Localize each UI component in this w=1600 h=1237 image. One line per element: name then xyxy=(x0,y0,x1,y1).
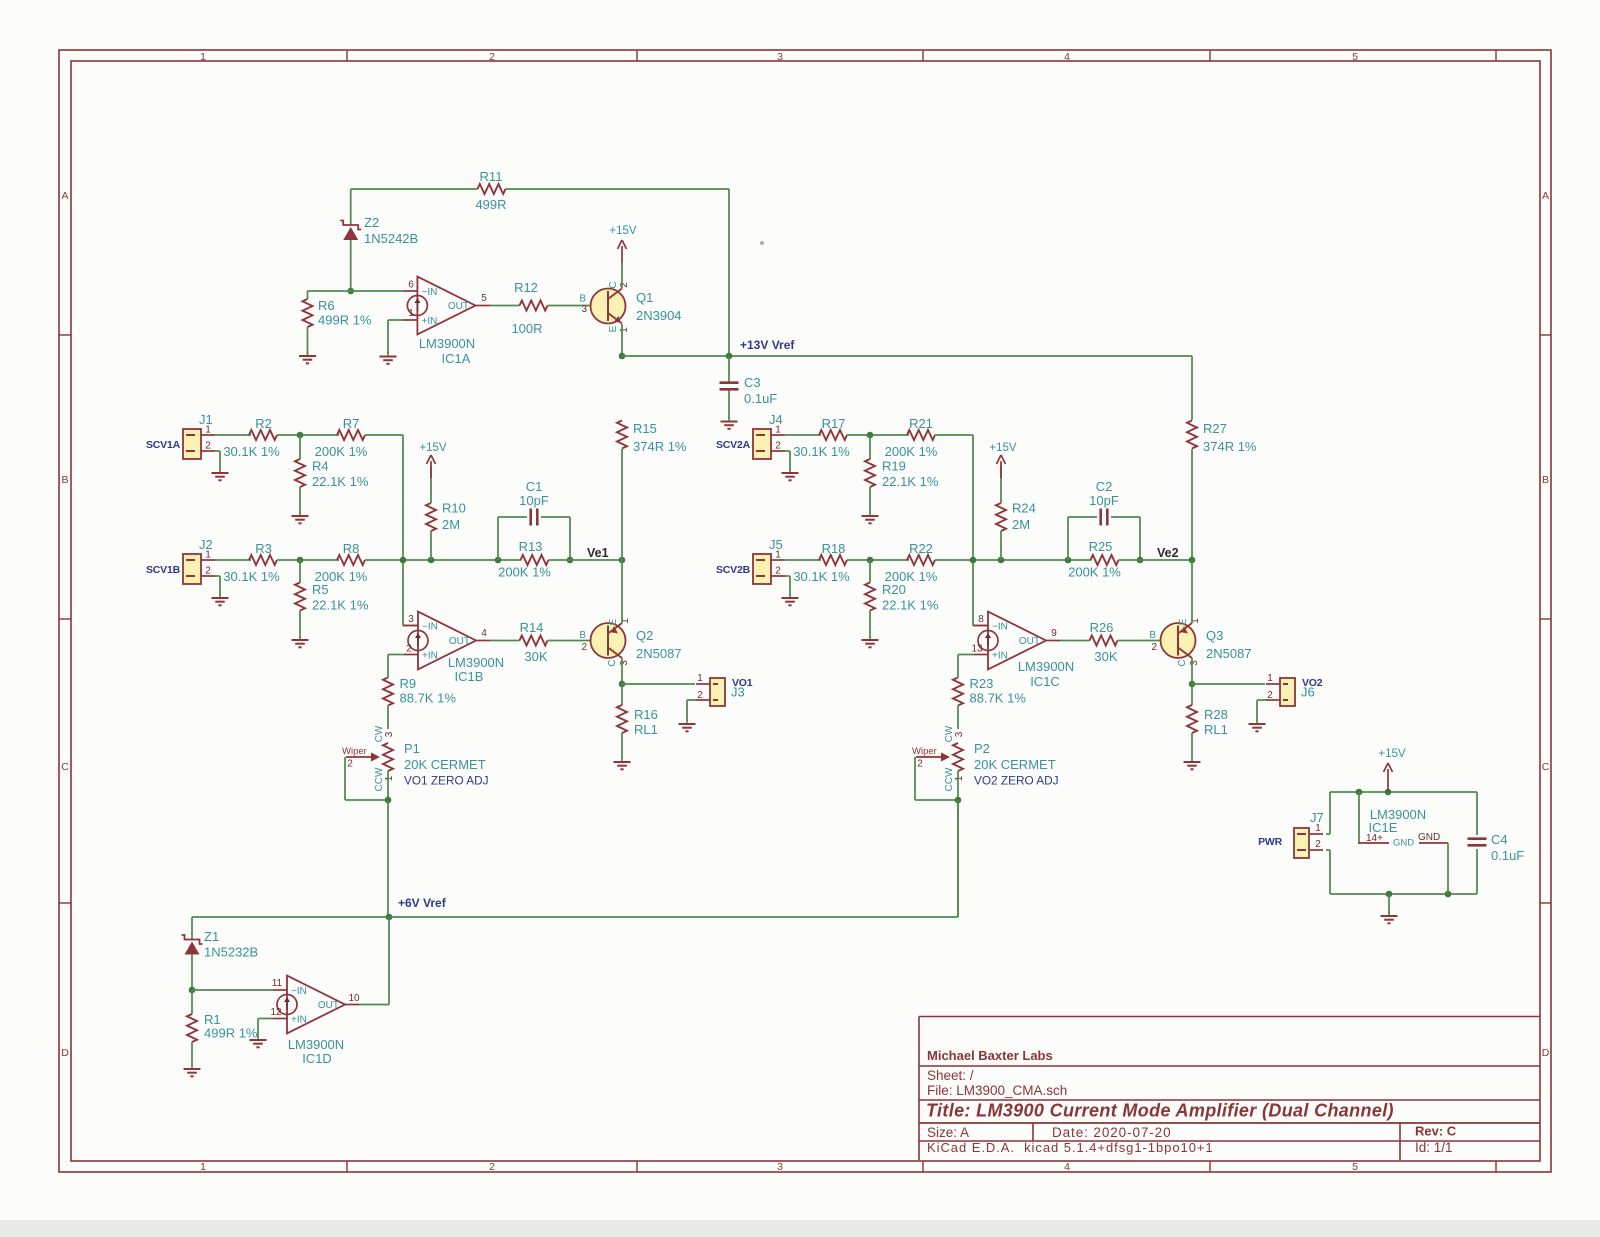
svg-text:10pF: 10pF xyxy=(519,493,549,508)
svg-text:1: 1 xyxy=(775,550,781,561)
svg-text:R18: R18 xyxy=(822,541,846,556)
svg-text:+IN: +IN xyxy=(992,651,1008,662)
wire P2 bottom xyxy=(957,771,959,800)
capacitor C4 xyxy=(1468,837,1487,840)
wire Q2 collector xyxy=(621,658,623,684)
wire IC1D out to rail xyxy=(345,1004,359,1006)
svg-text:GND: GND xyxy=(1393,838,1414,849)
svg-text:3: 3 xyxy=(581,304,587,315)
svg-text:2: 2 xyxy=(775,566,781,577)
svg-text:E: E xyxy=(608,618,619,625)
svg-text:IC1D: IC1D xyxy=(302,1051,332,1066)
svg-text:22.1K 1%: 22.1K 1% xyxy=(882,598,939,613)
wire Q1 collector xyxy=(621,263,623,288)
wire J1 pin1 to R2 xyxy=(215,434,251,436)
zener Z2 xyxy=(340,221,361,230)
svg-text:C: C xyxy=(1542,761,1550,773)
svg-text:+15V: +15V xyxy=(419,442,447,454)
svg-text:0.1uF: 0.1uF xyxy=(1491,848,1524,863)
connector J7 xyxy=(1294,828,1309,858)
svg-text:200K 1%: 200K 1% xyxy=(885,444,938,459)
wire output to J6 xyxy=(1192,683,1265,685)
node C3 junction xyxy=(726,353,733,360)
svg-text:Sheet: /: Sheet: / xyxy=(927,1068,974,1083)
svg-text:IC1C: IC1C xyxy=(1030,674,1060,689)
node IC1E V+ junction xyxy=(1356,789,1363,796)
svg-text:9: 9 xyxy=(1051,628,1057,639)
svg-text:R17: R17 xyxy=(822,416,846,431)
svg-text:Q3: Q3 xyxy=(1206,628,1223,643)
svg-text:Wiper: Wiper xyxy=(342,746,367,757)
svg-text:C: C xyxy=(61,761,69,773)
svg-text:R27: R27 xyxy=(1203,421,1227,436)
node Q1 emitter junction xyxy=(619,353,626,360)
node Z1 R1 junction xyxy=(189,987,196,994)
svg-text:Q1: Q1 xyxy=(636,290,653,305)
svg-text:OUT: OUT xyxy=(318,1000,339,1011)
svg-text:A: A xyxy=(61,190,68,202)
svg-text:B: B xyxy=(1542,474,1549,486)
resistor R15 xyxy=(617,421,627,449)
svg-text:1: 1 xyxy=(1267,673,1273,684)
svg-text:2: 2 xyxy=(697,690,703,701)
transistor Q1 2N3904 xyxy=(591,289,626,324)
wire P1 bottom xyxy=(387,771,389,800)
wire R18 to R22 xyxy=(847,559,909,561)
capacitor C3 xyxy=(720,381,739,384)
svg-text:Z2: Z2 xyxy=(364,215,379,230)
svg-text:R7: R7 xyxy=(343,416,360,431)
connector J4 xyxy=(753,429,771,459)
svg-text:IC1B: IC1B xyxy=(455,669,484,684)
resistor R8 xyxy=(337,555,365,565)
svg-text:1: 1 xyxy=(954,775,965,781)
node C2 right junction xyxy=(1137,557,1144,564)
svg-text:B: B xyxy=(579,294,586,305)
wire PWR bottom rail xyxy=(1330,893,1477,895)
ground IC1A +IN xyxy=(387,353,389,357)
svg-text:499R 1%: 499R 1% xyxy=(204,1026,258,1041)
node R17 R19 junction xyxy=(867,432,874,439)
svg-text:499R: 499R xyxy=(475,197,506,212)
svg-text:R24: R24 xyxy=(1012,501,1036,516)
svg-text:+15V: +15V xyxy=(609,225,637,237)
svg-text:C: C xyxy=(1177,659,1188,666)
svg-text:R25: R25 xyxy=(1089,539,1113,554)
resistor R4 xyxy=(299,435,301,459)
ground J4 xyxy=(789,469,791,473)
svg-text:4: 4 xyxy=(481,628,487,639)
ground R4 xyxy=(299,512,301,516)
svg-text:2: 2 xyxy=(775,441,781,452)
resistor R26 xyxy=(1090,636,1118,646)
svg-text:D: D xyxy=(1542,1047,1550,1059)
svg-text:IC1E: IC1E xyxy=(1369,820,1398,835)
connector J5 xyxy=(753,554,771,584)
svg-text:12: 12 xyxy=(270,1007,282,1018)
wire J7 pin1 up xyxy=(1326,833,1330,835)
resistor R14 xyxy=(520,636,548,646)
node C1 right junction xyxy=(567,557,574,564)
wire J2 pin1 to R3 xyxy=(215,559,251,561)
svg-text:SCV2B: SCV2B xyxy=(716,564,751,576)
svg-text:2M: 2M xyxy=(442,517,460,532)
svg-text:30K: 30K xyxy=(524,649,547,664)
svg-text:8: 8 xyxy=(978,614,984,625)
svg-text:88.7K 1%: 88.7K 1% xyxy=(970,691,1027,706)
svg-text:E: E xyxy=(1178,618,1189,625)
title block frame xyxy=(919,1016,1540,1018)
svg-text:OUT: OUT xyxy=(1019,636,1040,647)
svg-text:1: 1 xyxy=(384,775,395,781)
svg-text:2N3904: 2N3904 xyxy=(636,308,682,323)
svg-text:2: 2 xyxy=(205,566,211,577)
svg-text:KiCad E.D.A. kicad 5.1.4+dfsg: KiCad E.D.A. kicad 5.1.4+dfsg1-1bpo10+1 xyxy=(927,1140,1214,1155)
resistor R6 xyxy=(307,291,309,299)
node Q3 output junction xyxy=(1189,681,1196,688)
resistor R24 xyxy=(1000,531,1002,560)
wire J5 pin1 to R18 xyxy=(785,559,821,561)
node R3 R5 junction xyxy=(297,557,304,564)
wire C4 top stub xyxy=(1476,792,1478,835)
svg-text:2: 2 xyxy=(406,644,412,655)
svg-text:10: 10 xyxy=(348,993,360,1004)
svg-text:LM3900N: LM3900N xyxy=(448,655,504,670)
svg-text:R10: R10 xyxy=(442,501,466,516)
svg-text:1: 1 xyxy=(775,425,781,436)
svg-text:−IN: −IN xyxy=(291,986,307,997)
wire Q1 emitter xyxy=(621,324,623,356)
svg-text:200K 1%: 200K 1% xyxy=(315,444,368,459)
node ground junction xyxy=(1386,891,1393,898)
svg-text:3: 3 xyxy=(619,660,630,666)
svg-text:1: 1 xyxy=(205,425,211,436)
op-amp U1 IC1A xyxy=(417,277,475,335)
wire node to R6 xyxy=(308,290,351,292)
resistor R25 xyxy=(1091,555,1119,565)
node Ve2 junction xyxy=(1189,557,1196,564)
svg-text:5: 5 xyxy=(1352,51,1358,63)
svg-text:C: C xyxy=(607,659,618,666)
svg-text:Q2: Q2 xyxy=(636,628,653,643)
svg-text:PWR: PWR xyxy=(1258,836,1283,848)
svg-text:R4: R4 xyxy=(312,459,329,474)
svg-text:1: 1 xyxy=(200,51,206,63)
svg-text:R3: R3 xyxy=(255,541,272,556)
wire P2 wiper loop xyxy=(914,757,916,800)
wire J4 pin1 to R17 xyxy=(785,434,821,436)
svg-text:374R 1%: 374R 1% xyxy=(1203,439,1257,454)
resistor R5 xyxy=(299,560,301,583)
svg-text:+IN: +IN xyxy=(422,651,438,662)
resistor R28 xyxy=(1191,684,1193,705)
node R24 junction xyxy=(998,557,1005,564)
wire output to J3 xyxy=(622,683,695,685)
wire P1 wiper loop xyxy=(344,757,346,800)
resistor R27 xyxy=(1187,421,1197,449)
svg-text:RL1: RL1 xyxy=(1204,722,1228,737)
svg-text:R21: R21 xyxy=(909,416,933,431)
op-amp U1 IC1D xyxy=(287,976,345,1034)
svg-text:3: 3 xyxy=(777,51,783,63)
capacitor C2 xyxy=(1099,509,1102,526)
ground PWR xyxy=(1388,894,1390,914)
wire Q3 collector xyxy=(1191,658,1193,684)
resistor R7 xyxy=(337,430,365,440)
svg-text:VO1 ZERO ADJ: VO1 ZERO ADJ xyxy=(404,774,489,788)
svg-text:1: 1 xyxy=(1315,823,1321,834)
ground J6 xyxy=(1256,720,1258,724)
ground R20 xyxy=(869,636,871,640)
svg-text:1: 1 xyxy=(408,308,414,319)
transistor Q3 2N5087 xyxy=(1161,623,1196,658)
svg-text:6: 6 xyxy=(408,280,414,291)
svg-text:11: 11 xyxy=(272,978,283,989)
svg-text:R28: R28 xyxy=(1204,707,1228,722)
ground R6 xyxy=(307,352,309,356)
svg-text:2N5087: 2N5087 xyxy=(1206,646,1252,661)
wire Z1 top xyxy=(191,917,193,940)
svg-text:R23: R23 xyxy=(970,676,994,691)
wire J2 pin2 to ground xyxy=(215,575,220,577)
wire Z1 bottom xyxy=(191,955,193,991)
svg-text:D: D xyxy=(61,1047,69,1059)
connector J2 xyxy=(183,554,201,584)
wire R26 to Q3 base xyxy=(1118,640,1179,642)
svg-text:20K CERMET: 20K CERMET xyxy=(974,757,1056,772)
svg-text:499R 1%: 499R 1% xyxy=(318,313,372,328)
wire R21 to IC1C -IN xyxy=(935,434,973,436)
node P1 rail junction xyxy=(386,914,393,921)
svg-text:30.1K 1%: 30.1K 1% xyxy=(793,444,850,459)
node +15V junction xyxy=(1385,789,1392,796)
node IC1A -IN junction xyxy=(347,288,354,295)
ground R1 xyxy=(191,1065,193,1069)
wire IC1D +IN to ground xyxy=(273,1018,287,1020)
svg-text:RL1: RL1 xyxy=(634,722,658,737)
op-amp U1 IC1C xyxy=(988,612,1046,670)
svg-text:2: 2 xyxy=(581,642,587,653)
wire R3 to R8 xyxy=(277,559,339,561)
svg-text:Z1: Z1 xyxy=(204,929,219,944)
svg-text:−IN: −IN xyxy=(422,622,438,633)
wire J1 pin2 to ground xyxy=(215,450,220,452)
svg-text:2: 2 xyxy=(1315,839,1321,850)
svg-text:2: 2 xyxy=(1151,642,1157,653)
wire R27 to Ve2 xyxy=(1191,449,1193,560)
svg-text:Size: A: Size: A xyxy=(927,1125,969,1140)
wire Z2 top xyxy=(350,189,352,225)
wire node to IC1A -IN xyxy=(351,290,403,292)
svg-text:SCV1B: SCV1B xyxy=(146,564,181,576)
svg-text:P2: P2 xyxy=(974,741,990,756)
svg-text:C: C xyxy=(608,281,619,288)
node P1 junction xyxy=(385,797,392,804)
svg-text:Date: 2020-07-20: Date: 2020-07-20 xyxy=(1052,1125,1171,1140)
resistor R9 xyxy=(383,678,393,706)
svg-text:4: 4 xyxy=(1064,51,1070,63)
resistor R22 xyxy=(907,555,935,565)
node C1 left junction xyxy=(495,557,502,564)
zener Z1 xyxy=(182,935,203,944)
power +15V R24 xyxy=(1000,461,1002,478)
svg-text:R5: R5 xyxy=(312,582,329,597)
svg-text:1: 1 xyxy=(200,1161,206,1173)
svg-text:30.1K 1%: 30.1K 1% xyxy=(223,569,280,584)
resistor R17 xyxy=(819,430,847,440)
svg-text:30.1K 1%: 30.1K 1% xyxy=(223,444,280,459)
svg-text:30.1K 1%: 30.1K 1% xyxy=(793,569,850,584)
svg-text:+6V Vref: +6V Vref xyxy=(398,896,447,910)
svg-text:1: 1 xyxy=(205,550,211,561)
svg-text:P1: P1 xyxy=(404,741,420,756)
resistor R13 xyxy=(521,555,549,565)
svg-text:A: A xyxy=(1542,190,1549,202)
svg-text:22.1K 1%: 22.1K 1% xyxy=(882,474,939,489)
node -IN column junction xyxy=(400,557,407,564)
resistor R20 xyxy=(869,560,871,583)
svg-text:GND: GND xyxy=(1418,832,1440,843)
svg-text:Id: 1/1: Id: 1/1 xyxy=(1415,1140,1453,1155)
connector J1 xyxy=(183,429,201,459)
svg-text:4: 4 xyxy=(1064,1161,1070,1173)
connector J3 xyxy=(710,678,725,706)
resistor R18 xyxy=(819,555,847,565)
svg-text:C2: C2 xyxy=(1096,479,1113,494)
svg-text:1: 1 xyxy=(619,327,630,333)
svg-text:Michael Baxter Labs: Michael Baxter Labs xyxy=(927,1048,1053,1063)
svg-text:2: 2 xyxy=(917,759,923,770)
svg-text:VO1: VO1 xyxy=(732,677,753,689)
resistor R16 xyxy=(621,684,623,705)
svg-text:LM3900N: LM3900N xyxy=(419,336,475,351)
wire R11 feedback net xyxy=(351,188,478,190)
wire IC1C +IN to R23 xyxy=(974,654,988,656)
svg-text:10pF: 10pF xyxy=(1089,493,1119,508)
svg-text:5: 5 xyxy=(1352,1161,1358,1173)
svg-text:C1: C1 xyxy=(526,479,543,494)
op-amp U1 IC1B xyxy=(418,612,476,670)
wire P1 to +6V rail xyxy=(387,800,389,917)
wire C1 loop xyxy=(497,517,499,560)
ground IC1D +IN xyxy=(257,1036,259,1040)
ground C3 xyxy=(728,418,730,422)
svg-text:R15: R15 xyxy=(633,421,657,436)
power +15V R10 xyxy=(430,461,432,478)
svg-text:R9: R9 xyxy=(400,676,417,691)
svg-text:30K: 30K xyxy=(1094,649,1117,664)
transistor Q2 2N5087 xyxy=(591,623,626,658)
wire C2 loop xyxy=(1067,517,1069,560)
svg-text:R6: R6 xyxy=(318,298,335,313)
wire P2 to +6V rail xyxy=(957,800,959,917)
wire R7 to IC1B -IN xyxy=(365,434,403,436)
svg-text:+15V: +15V xyxy=(1378,748,1406,760)
power +15V Q1 xyxy=(621,246,623,263)
svg-text:3: 3 xyxy=(954,731,965,737)
wire R2 to R7 xyxy=(277,434,339,436)
svg-text:R13: R13 xyxy=(519,539,543,554)
wire Z2 bottom to node xyxy=(350,240,352,291)
svg-text:Rev: C: Rev: C xyxy=(1415,1124,1457,1139)
svg-text:22.1K 1%: 22.1K 1% xyxy=(312,474,369,489)
svg-text:2: 2 xyxy=(347,759,353,770)
wire PWR top rail xyxy=(1330,791,1477,793)
svg-text:−IN: −IN xyxy=(422,287,438,298)
svg-text:R19: R19 xyxy=(882,459,906,474)
wire R12 to Q1 base xyxy=(548,305,609,307)
ground R5 xyxy=(299,636,301,640)
svg-text:LM3900N: LM3900N xyxy=(288,1037,344,1052)
capacitor C1 xyxy=(529,509,532,526)
svg-text:OUT: OUT xyxy=(449,636,470,647)
wire IC1C out to R26 xyxy=(1046,640,1060,642)
svg-text:Title: LM3900 Current Mode Amp: Title: LM3900 Current Mode Amplifier (Du… xyxy=(926,1101,1394,1121)
svg-text:B: B xyxy=(61,474,68,486)
wire IC1B out to R14 xyxy=(476,640,490,642)
wire IC1A out to R12 xyxy=(475,305,490,307)
wire Q2 emitter to Ve1 xyxy=(621,560,623,623)
svg-text:R26: R26 xyxy=(1090,620,1114,635)
resistor R11 xyxy=(478,184,506,194)
node R2 R4 junction xyxy=(297,432,304,439)
svg-text:0.1uF: 0.1uF xyxy=(744,391,777,406)
svg-text:R12: R12 xyxy=(514,280,538,295)
svg-text:2: 2 xyxy=(619,282,630,288)
svg-text:E: E xyxy=(608,325,619,332)
svg-text:IC1A: IC1A xyxy=(442,351,471,366)
resistor R12 xyxy=(520,301,548,311)
svg-text:2: 2 xyxy=(489,1161,495,1173)
svg-text:R11: R11 xyxy=(480,169,503,184)
svg-text:3: 3 xyxy=(408,614,414,625)
svg-text:R16: R16 xyxy=(634,707,658,722)
svg-text:LM3900N: LM3900N xyxy=(1018,659,1074,674)
svg-text:+IN: +IN xyxy=(291,1015,307,1026)
svg-text:−IN: −IN xyxy=(992,622,1008,633)
svg-text:C3: C3 xyxy=(744,375,761,390)
wire Q3 emitter to Ve2 xyxy=(1191,560,1193,623)
resistor R10 xyxy=(430,531,432,560)
svg-text:VO2 ZERO ADJ: VO2 ZERO ADJ xyxy=(974,774,1059,788)
svg-text:B: B xyxy=(579,630,586,641)
ground J1 xyxy=(219,469,221,473)
wire IC1A +IN to ground xyxy=(403,319,417,321)
node Q2 output junction xyxy=(619,681,626,688)
wire R22 to R25 xyxy=(935,559,1092,561)
wire J3 pin2 to ground xyxy=(687,699,696,701)
svg-text:SCV1A: SCV1A xyxy=(146,439,181,451)
svg-text:Wiper: Wiper xyxy=(912,746,937,757)
svg-text:1N5232B: 1N5232B xyxy=(204,945,258,960)
svg-text:200K 1%: 200K 1% xyxy=(1068,565,1121,580)
wire +6V Vref rail xyxy=(192,916,958,918)
svg-text:20K CERMET: 20K CERMET xyxy=(404,757,486,772)
svg-text:5: 5 xyxy=(481,293,487,304)
resistor R19 xyxy=(869,435,871,459)
wire C3 stub xyxy=(728,356,730,382)
ground J2 xyxy=(219,594,221,598)
svg-text:2: 2 xyxy=(489,51,495,63)
node IC1E GND junction xyxy=(1445,891,1452,898)
wire R13 to Ve1 xyxy=(549,559,623,561)
svg-text:3: 3 xyxy=(384,731,395,737)
svg-text:R22: R22 xyxy=(909,541,933,556)
svg-text:R8: R8 xyxy=(343,541,360,556)
svg-text:C4: C4 xyxy=(1491,832,1508,847)
wire J4 pin2 to ground xyxy=(785,450,790,452)
svg-text:22.1K 1%: 22.1K 1% xyxy=(312,598,369,613)
